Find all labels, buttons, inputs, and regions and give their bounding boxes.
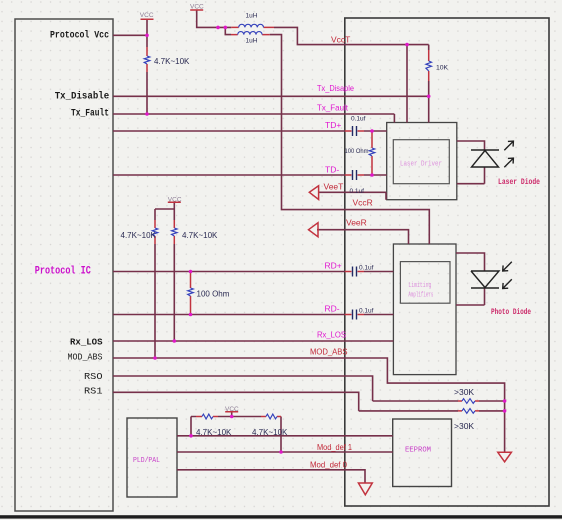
svg-text:VCC: VCC bbox=[168, 196, 182, 203]
svg-text:0.1uf: 0.1uf bbox=[359, 265, 374, 272]
svg-text:Tx_Disaple: Tx_Disaple bbox=[317, 83, 354, 93]
svg-text:Mod_def 0: Mod_def 0 bbox=[310, 460, 347, 470]
svg-text:0.1uf: 0.1uf bbox=[359, 308, 374, 315]
svg-text:1uH: 1uH bbox=[246, 13, 258, 20]
svg-text:RS1: RS1 bbox=[84, 386, 103, 397]
svg-text:4.7K~10K: 4.7K~10K bbox=[154, 57, 190, 66]
svg-text:100 Ohm: 100 Ohm bbox=[197, 290, 230, 299]
svg-text:4.7K~10K: 4.7K~10K bbox=[121, 231, 157, 240]
svg-text:Protocol IC: Protocol IC bbox=[35, 266, 91, 278]
svg-text:Protocol Vcc: Protocol Vcc bbox=[50, 30, 109, 42]
svg-text:Laser Diode: Laser Diode bbox=[498, 178, 540, 187]
svg-text:TD-: TD- bbox=[325, 165, 339, 175]
svg-text:0.1uf: 0.1uf bbox=[350, 188, 365, 195]
svg-text:RSO: RSO bbox=[84, 371, 103, 382]
svg-text:Rx_LOS: Rx_LOS bbox=[317, 330, 346, 340]
svg-text:Limiting: Limiting bbox=[408, 282, 431, 290]
svg-text:MOD_ABS: MOD_ABS bbox=[310, 347, 348, 357]
svg-text:Tx_Fault: Tx_Fault bbox=[71, 108, 109, 120]
svg-text:100 Ohm: 100 Ohm bbox=[345, 148, 369, 155]
svg-text:MOD_ABS: MOD_ABS bbox=[68, 353, 103, 363]
svg-text:Mod_def 1: Mod_def 1 bbox=[317, 442, 352, 452]
svg-text:>30K: >30K bbox=[454, 421, 474, 431]
svg-text:VCC: VCC bbox=[140, 12, 154, 19]
svg-text:Tx_Fault: Tx_Fault bbox=[317, 103, 349, 113]
svg-text:VccR: VccR bbox=[353, 198, 373, 208]
svg-text:Laser Driver: Laser Driver bbox=[400, 161, 442, 169]
svg-text:Photo Diode: Photo Diode bbox=[491, 308, 531, 317]
svg-text:VeeT: VeeT bbox=[324, 182, 344, 192]
svg-text:Tx_Disable: Tx_Disable bbox=[55, 91, 109, 103]
svg-text:RD-: RD- bbox=[325, 304, 340, 314]
svg-text:VCC: VCC bbox=[225, 406, 239, 413]
svg-text:0.1uf: 0.1uf bbox=[351, 116, 366, 123]
svg-text:4.7K~10K: 4.7K~10K bbox=[182, 231, 218, 240]
svg-text:4.7K~10K: 4.7K~10K bbox=[196, 428, 232, 437]
svg-text:PLD/PAL: PLD/PAL bbox=[133, 457, 160, 465]
svg-text:VCC: VCC bbox=[190, 3, 204, 10]
svg-text:VccT: VccT bbox=[331, 35, 350, 45]
svg-text:TD+: TD+ bbox=[325, 120, 341, 130]
svg-text:>30K: >30K bbox=[454, 387, 474, 397]
svg-text:EEPROM: EEPROM bbox=[405, 447, 431, 455]
svg-text:Amplifiers: Amplifiers bbox=[408, 292, 433, 300]
svg-text:4.7K~10K: 4.7K~10K bbox=[252, 428, 288, 437]
svg-text:Rx_LOS: Rx_LOS bbox=[70, 337, 103, 348]
svg-text:VeeR: VeeR bbox=[346, 218, 367, 228]
svg-text:1uH: 1uH bbox=[246, 38, 258, 45]
svg-text:10K: 10K bbox=[436, 65, 449, 72]
svg-text:RD+: RD+ bbox=[325, 261, 342, 271]
